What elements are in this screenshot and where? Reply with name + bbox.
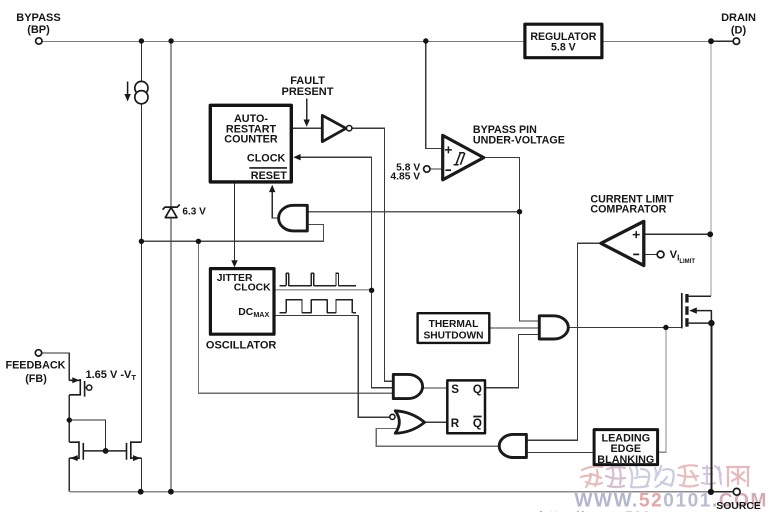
svg-text:RESET: RESET xyxy=(251,170,287,182)
svg-text:S: S xyxy=(451,383,459,396)
svg-text:Q: Q xyxy=(473,383,482,396)
svg-text:(BP): (BP) xyxy=(27,24,50,36)
svg-text:(FB): (FB) xyxy=(25,373,47,385)
svg-text:DRAIN: DRAIN xyxy=(721,12,756,24)
svg-text:5.8 V: 5.8 V xyxy=(551,41,576,53)
svg-text:UNDER-VOLTAGE: UNDER-VOLTAGE xyxy=(473,135,565,147)
svg-text:SOURCE: SOURCE xyxy=(716,501,761,512)
svg-text:OSCILLATOR: OSCILLATOR xyxy=(206,340,277,352)
svg-text:COUNTER: COUNTER xyxy=(224,133,278,145)
svg-text:6.3 V: 6.3 V xyxy=(182,207,206,218)
svg-text:Q: Q xyxy=(473,417,482,430)
svg-text:COMPARATOR: COMPARATOR xyxy=(590,203,666,215)
svg-text:BYPASS: BYPASS xyxy=(16,12,60,24)
svg-text:FEEDBACK: FEEDBACK xyxy=(6,359,66,371)
svg-text:CLOCK: CLOCK xyxy=(247,153,286,165)
svg-text:4.85 V: 4.85 V xyxy=(390,172,420,183)
svg-text:PRESENT: PRESENT xyxy=(282,86,334,98)
svg-text:SHUTDOWN: SHUTDOWN xyxy=(424,331,484,342)
svg-text:R: R xyxy=(451,417,460,430)
svg-text:THERMAL: THERMAL xyxy=(429,319,479,330)
svg-text:1.65 V -VT: 1.65 V -VT xyxy=(86,369,137,382)
svg-text:(D): (D) xyxy=(731,25,747,37)
svg-text:BLANKING: BLANKING xyxy=(597,454,654,466)
svg-text:www.htto://www.520: www.htto://www.520 xyxy=(498,508,651,512)
svg-text:CLOCK: CLOCK xyxy=(234,283,271,294)
